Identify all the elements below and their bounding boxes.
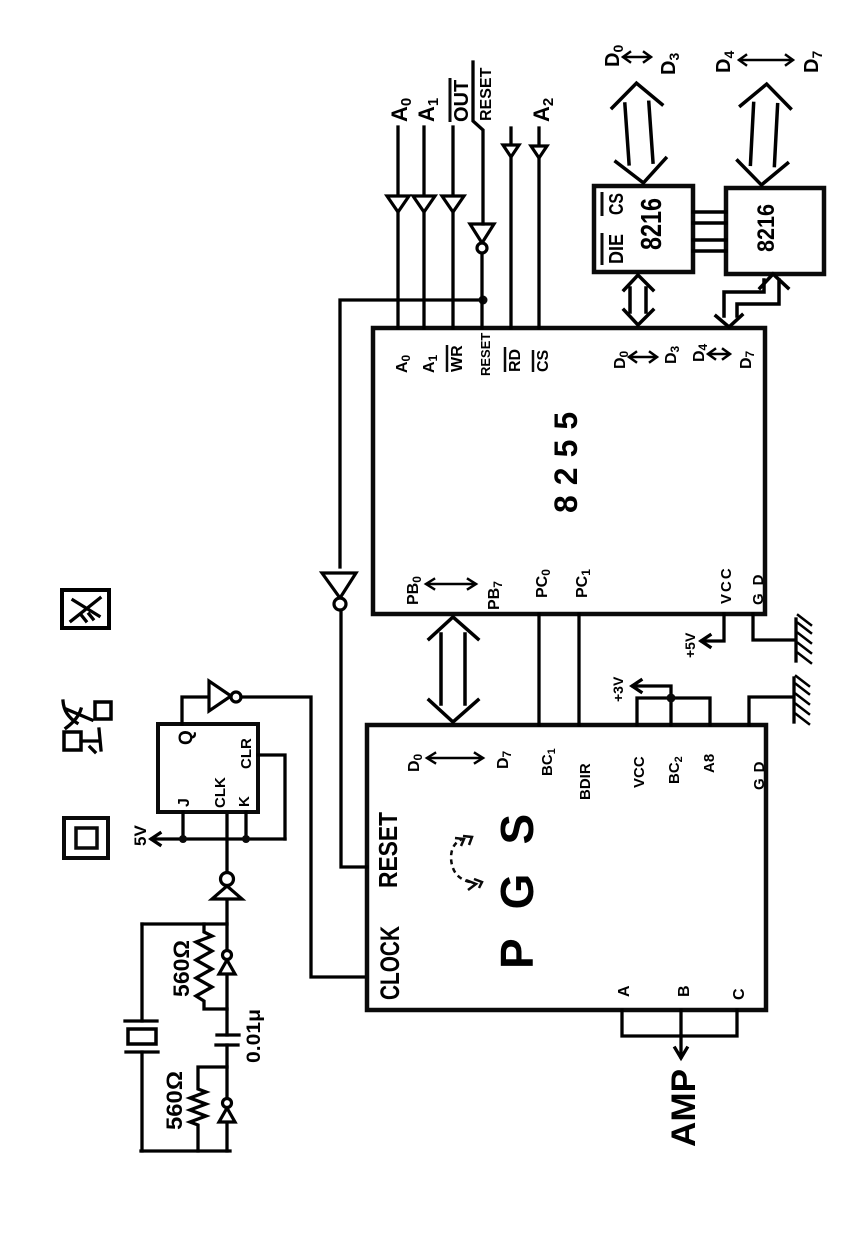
svg-text:8216: 8216 [753,204,780,252]
svg-text:8255: 8255 [548,402,584,513]
arrow D0-D3 far [623,52,651,62]
inverter (reset) [322,573,356,610]
wire inverter to CLK [225,812,228,872]
svg-text:BDIR: BDIR [577,763,594,800]
resistor R1 560ohm [196,924,227,1009]
wire crystal branch [140,924,143,1151]
inverter (oscillator output) [212,873,242,900]
svg-text:560Ω: 560Ω [162,1071,187,1130]
squiggle arrow [451,836,482,890]
junction dot K [242,835,250,843]
buffer A1 [413,196,435,212]
wire RESET line into PGS [341,611,367,867]
small arrow symbol on line (right) [219,951,235,975]
svg-text:K: K [236,796,253,807]
8255 box U2 [373,328,765,614]
svg-text:GD: GD [750,567,767,606]
svg-text:C: C [731,988,748,1000]
oscillator top rail [142,922,227,925]
svg-text:CS: CS [606,193,628,215]
buffer A0 [387,196,409,212]
ground (PGS) [794,676,809,724]
arrow to AMP [675,1036,687,1058]
bus arrow 8216-2 to D4-D7 [736,83,791,186]
8216 box 2 [726,188,824,274]
wires A B C to bracket [622,1010,737,1036]
wire Q output [182,697,209,724]
wire WR/OUT [451,127,454,328]
arrow on RD [503,145,519,157]
inverter (clock buffer) [209,681,241,711]
svg-text:DIE: DIE [606,234,628,264]
svg-text:0.01μ: 0.01μ [244,1009,265,1063]
svg-text:WR: WR [449,345,466,372]
label OUT with overline [450,78,473,122]
svg-text:VCC: VCC [631,756,648,788]
wire A0 [396,127,399,328]
junction dot J [179,835,187,843]
stamp 図 (title char 3) [62,590,109,628]
svg-text:+3V: +3V [610,676,626,702]
svg-text:GD: GD [751,756,768,791]
arrow D0-D7 (PGS) [427,753,483,763]
wire K to 5V rail [244,812,247,840]
svg-text:CLK: CLK [212,777,229,808]
svg-text:B: B [676,985,693,997]
svg-text:AMP: AMP [665,1069,703,1147]
label DIE with overline [602,233,628,265]
label RD pin with overline [505,347,524,372]
wire CS/A2 [537,128,540,328]
svg-text:RESET: RESET [478,67,495,121]
svg-text:CLR: CLR [238,738,255,769]
arrow PB0-PB7 [426,579,476,589]
resistor R2 560ohm [190,1067,227,1151]
wire J to 5V rail [181,812,184,840]
wire PC0 [537,614,540,725]
svg-text:5V: 5V [131,825,150,846]
wire 8255 +5V [701,614,724,647]
wire RESET input [480,254,483,328]
ground (8255) [796,615,811,663]
wire A1 [422,127,425,328]
arrow D0-D3 (8255) [629,352,657,362]
wire PGS ground [749,697,792,725]
wire 8255 ground [753,614,794,640]
arrow D4-D7 (8255) [708,349,730,359]
svg-text:560Ω: 560Ω [169,940,194,997]
oscillator left rail [141,1149,230,1152]
bus arrow PB (PGS to 8255) [429,617,478,722]
connector bars between 8216s [693,212,726,251]
8216 box 1 [594,186,693,272]
bus arrow Z (8216-2 to 8255) [716,274,788,327]
5V rail [151,833,285,845]
wire oscillator main line [225,899,228,1151]
wire clock to PGS [241,697,367,977]
svg-text:RESET: RESET [478,333,493,376]
arrow on CS [531,146,547,158]
wire PC1 [577,614,580,725]
small arrow symbol on line (left) [219,1099,235,1123]
svg-text:CS: CS [535,349,552,372]
svg-text:CLOCK: CLOCK [375,926,405,1000]
crystal Y1 [125,1021,158,1052]
inverter RESET input [470,224,494,253]
stamp 路 (title char 2) [63,701,111,752]
svg-text:8216: 8216 [636,198,668,250]
bus arrow 8216-1 to D0-D3 [611,81,668,184]
bus arrow 8216-1 to 8255 [624,275,653,325]
stamp 回 (title char 1) [64,818,108,858]
svg-text:J: J [176,798,193,807]
svg-text:PGS: PGS [491,785,543,969]
svg-text:RD: RD [507,349,524,372]
svg-text:RESET: RESET [373,812,403,888]
buffer OUT [442,196,464,212]
label CS pin with overline [533,349,552,372]
svg-text:OUT: OUT [451,80,473,122]
label WR pin with overline [447,345,466,372]
svg-text:A8: A8 [701,754,718,773]
flip-flop U3 [158,724,258,812]
svg-text:VCC: VCC [718,566,735,604]
svg-text:A: A [616,985,633,997]
arrow D4-D7 far [739,55,793,65]
wire CLR loop [258,755,285,839]
svg-text:Q: Q [176,730,197,745]
+5V rail PGS [632,680,710,725]
junction dot reset [479,296,488,305]
wire RESET to label [473,62,483,224]
wire RD [509,128,512,328]
PGS box U4 [367,725,766,1010]
svg-text:+5V: +5V [682,632,698,658]
label CS with overline [602,192,628,216]
junction dot PGS vcc [667,694,676,703]
capacitor C1 0.01u [216,1035,239,1045]
wire inverter to junction [340,300,483,567]
